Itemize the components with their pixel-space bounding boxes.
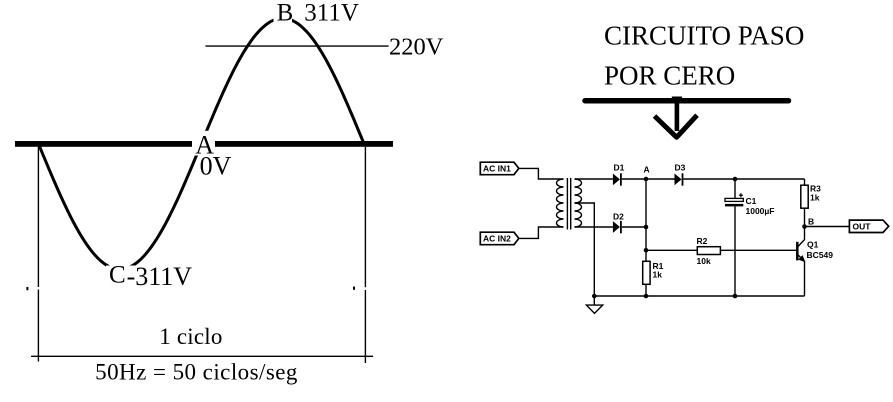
junction C1 bottom xyxy=(733,294,738,299)
C1 bottom plate xyxy=(725,204,743,207)
svg-text:C: C xyxy=(109,262,126,289)
C1 top plate xyxy=(725,198,743,201)
junction C1 top xyxy=(733,177,738,182)
diode D3 xyxy=(675,174,682,186)
sine waveform xyxy=(39,18,364,269)
AC IN2 tag xyxy=(480,232,519,245)
label mask B xyxy=(274,1,293,24)
wire R3 to node B xyxy=(804,208,806,226)
junction D2 node xyxy=(644,225,649,230)
resistor R3 body xyxy=(801,185,808,208)
junction ground xyxy=(592,294,597,299)
wire top rail to R3 xyxy=(804,179,806,185)
Q1 base bar xyxy=(796,242,799,261)
svg-text:D3: D3 xyxy=(675,163,686,173)
svg-text:10k: 10k xyxy=(697,256,711,266)
svg-text:A: A xyxy=(644,165,650,175)
ground stem xyxy=(593,296,595,305)
ground triangle xyxy=(586,305,602,313)
AC IN1 tag xyxy=(480,162,519,175)
center tap wire to ground xyxy=(575,203,595,296)
Q1 collector wire xyxy=(798,227,805,247)
title underline thick xyxy=(585,98,789,104)
svg-text:CIRCUITO PASO: CIRCUITO PASO xyxy=(604,21,804,51)
diode D2 xyxy=(613,221,620,233)
resistor R2 body xyxy=(697,247,720,255)
wire node B to OUT xyxy=(805,226,850,228)
right cycle marker line xyxy=(364,147,366,287)
0V axis thick line xyxy=(15,141,393,147)
transformer T1 primary winding xyxy=(557,179,564,227)
svg-text:311V: 311V xyxy=(304,0,359,26)
junction R1 bottom xyxy=(644,294,649,299)
capacitor C1 top wire xyxy=(734,179,736,198)
svg-text:D1: D1 xyxy=(614,163,625,173)
C1 bottom wire xyxy=(734,206,736,296)
vertical node A wire xyxy=(645,179,647,261)
svg-text:AC IN2: AC IN2 xyxy=(483,234,511,244)
left cycle marker line xyxy=(37,147,39,287)
svg-text:B: B xyxy=(808,217,814,227)
stray dot left xyxy=(26,287,28,290)
svg-text:OUT: OUT xyxy=(853,222,872,232)
dimension line xyxy=(31,355,373,357)
svg-text:220V: 220V xyxy=(389,33,444,60)
stray dot right xyxy=(353,287,355,290)
svg-text:1k: 1k xyxy=(653,270,663,280)
wire D2 to node xyxy=(622,226,646,228)
junction node A xyxy=(644,177,649,182)
svg-text:BC549: BC549 xyxy=(807,250,834,260)
220V reference line xyxy=(206,45,389,47)
transformer core xyxy=(566,178,568,230)
arrow knob xyxy=(672,97,682,104)
svg-text:-311V: -311V xyxy=(127,262,193,291)
label mask C xyxy=(106,266,201,290)
svg-text:Q1: Q1 xyxy=(807,240,819,250)
svg-text:1 ciclo: 1 ciclo xyxy=(159,324,222,349)
junction node B xyxy=(802,224,807,229)
wire AC IN1 to transformer xyxy=(519,168,564,179)
diode D1 xyxy=(613,174,620,186)
resistor R1 body xyxy=(643,261,650,284)
svg-text:AC IN1: AC IN1 xyxy=(483,164,511,174)
label mask A xyxy=(192,131,215,156)
transformer T1 secondary winding xyxy=(575,179,582,227)
wire R2 to Q1 base xyxy=(720,249,796,251)
svg-text:D2: D2 xyxy=(613,212,624,222)
junction R1/R2 node xyxy=(644,248,649,253)
svg-text:B: B xyxy=(277,0,294,26)
wire D1 to node A xyxy=(622,178,675,180)
arrowhead left stroke xyxy=(655,115,698,137)
wire R1 bottom xyxy=(645,284,647,296)
wire D3 to R3 corner xyxy=(683,178,804,180)
svg-text:0V: 0V xyxy=(200,152,232,181)
svg-text:POR CERO: POR CERO xyxy=(604,60,735,90)
svg-text:1k: 1k xyxy=(810,193,820,203)
svg-text:R2: R2 xyxy=(697,236,708,246)
arrow shaft xyxy=(675,100,680,131)
bottom rail xyxy=(594,295,804,297)
svg-text:C1: C1 xyxy=(746,196,757,206)
wire secondary bottom to D2 xyxy=(575,226,613,228)
wire secondary top to D1 xyxy=(575,178,613,180)
Q1 emitter wire xyxy=(798,255,805,296)
OUT tag xyxy=(849,220,888,232)
svg-text:1000µF: 1000µF xyxy=(746,206,775,216)
wire node to R2 xyxy=(646,249,697,251)
svg-text:50Hz = 50 ciclos/seg: 50Hz = 50 ciclos/seg xyxy=(95,360,298,385)
Q1 emitter arrow xyxy=(798,255,805,262)
wire AC IN2 to transformer xyxy=(519,227,564,238)
C1 plus sign xyxy=(739,194,743,196)
